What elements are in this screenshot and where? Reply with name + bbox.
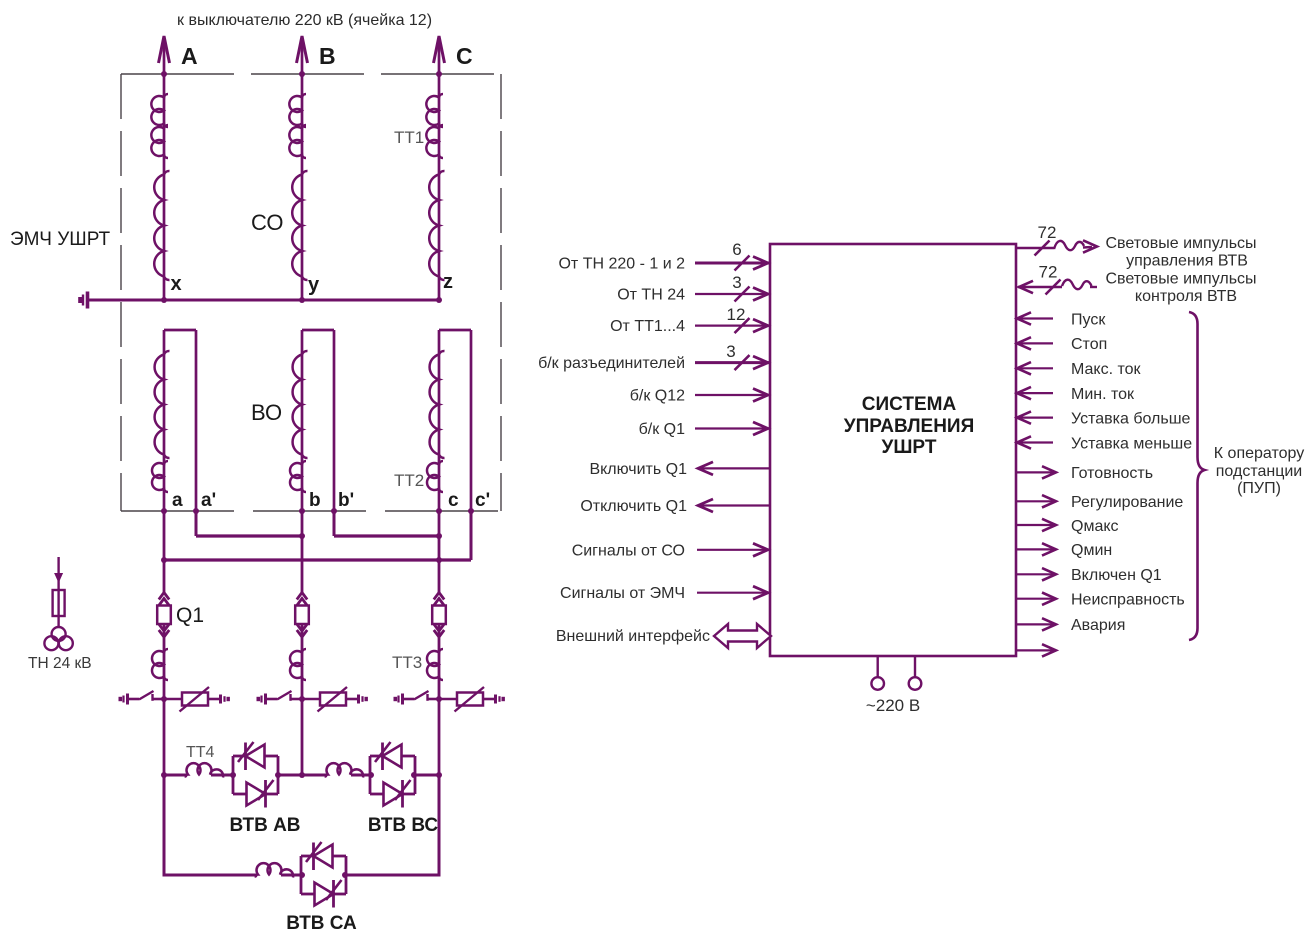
svg-text:УШРТ: УШРТ <box>882 437 937 458</box>
svg-text:72: 72 <box>1039 263 1058 282</box>
svg-text:ТТ2: ТТ2 <box>394 471 424 490</box>
svg-text:УПРАВЛЕНИЯ: УПРАВЛЕНИЯ <box>844 416 975 437</box>
svg-text:z: z <box>443 271 453 293</box>
svg-text:ВТВ АВ: ВТВ АВ <box>229 815 300 836</box>
svg-text:СИСТЕМА: СИСТЕМА <box>862 394 957 415</box>
svg-text:ВТВ СА: ВТВ СА <box>286 913 357 934</box>
svg-text:управления ВТВ: управления ВТВ <box>1126 253 1248 270</box>
svg-text:~220 В: ~220 В <box>866 696 920 715</box>
svg-text:Сигналы от СО: Сигналы от СО <box>572 542 685 559</box>
svg-text:СО: СО <box>251 210 284 235</box>
svg-text:Q1: Q1 <box>176 604 204 627</box>
svg-text:С: С <box>456 43 473 69</box>
svg-text:ТН 24 кВ: ТН 24 кВ <box>28 655 92 672</box>
svg-text:Световые импульсы: Световые импульсы <box>1105 235 1256 252</box>
svg-text:подстанции: подстанции <box>1216 463 1302 480</box>
svg-text:Пуск: Пуск <box>1071 311 1106 328</box>
svg-text:б/к разъединителей: б/к разъединителей <box>538 355 685 372</box>
svg-text:Qмакс: Qмакс <box>1071 518 1119 535</box>
svg-text:Уставка меньше: Уставка меньше <box>1071 435 1192 452</box>
svg-text:А: А <box>181 43 198 69</box>
svg-text:(ПУП): (ПУП) <box>1237 480 1281 497</box>
svg-text:От ТН 24: От ТН 24 <box>617 287 685 304</box>
svg-text:b: b <box>309 490 321 511</box>
svg-text:В: В <box>319 43 336 69</box>
svg-text:Стоп: Стоп <box>1071 336 1107 353</box>
svg-text:к выключателю 220 кВ (ячейка 1: к выключателю 220 кВ (ячейка 12) <box>177 12 432 29</box>
svg-text:Qмин: Qмин <box>1071 542 1112 559</box>
svg-text:Внешний интерфейс: Внешний интерфейс <box>556 628 710 645</box>
svg-text:c': c' <box>475 490 490 511</box>
svg-text:Регулирование: Регулирование <box>1071 494 1183 511</box>
svg-text:б/к Q1: б/к Q1 <box>639 421 686 438</box>
svg-text:ТТ3: ТТ3 <box>392 653 422 672</box>
svg-text:От ТТ1...4: От ТТ1...4 <box>610 318 685 335</box>
svg-text:Авария: Авария <box>1071 617 1125 634</box>
svg-text:ВТВ ВС: ВТВ ВС <box>368 815 439 836</box>
svg-text:Мин. ток: Мин. ток <box>1071 386 1135 403</box>
svg-text:Уставка больше: Уставка больше <box>1071 410 1191 427</box>
svg-text:контроля ВТВ: контроля ВТВ <box>1135 288 1237 305</box>
svg-text:72: 72 <box>1038 223 1057 242</box>
svg-text:a: a <box>172 490 183 511</box>
svg-text:ВО: ВО <box>251 400 282 425</box>
svg-text:Включен Q1: Включен Q1 <box>1071 567 1162 584</box>
svg-text:c: c <box>448 490 459 511</box>
svg-text:12: 12 <box>727 305 746 324</box>
svg-text:б/к Q12: б/к Q12 <box>630 388 685 405</box>
svg-text:a': a' <box>201 490 216 511</box>
svg-text:Готовность: Готовность <box>1071 465 1153 482</box>
svg-text:3: 3 <box>726 342 735 361</box>
svg-text:b': b' <box>338 490 354 511</box>
svg-text:К оператору: К оператору <box>1214 445 1304 462</box>
svg-text:Отключить Q1: Отключить Q1 <box>580 498 687 515</box>
svg-text:ЭМЧ УШРТ: ЭМЧ УШРТ <box>10 229 111 250</box>
svg-text:x: x <box>171 273 182 295</box>
svg-text:Неисправность: Неисправность <box>1071 592 1185 609</box>
svg-text:Сигналы от ЭМЧ: Сигналы от ЭМЧ <box>560 585 685 602</box>
svg-text:Макс. ток: Макс. ток <box>1071 361 1142 378</box>
svg-text:y: y <box>308 274 320 296</box>
svg-text:6: 6 <box>732 240 741 259</box>
svg-text:Включить Q1: Включить Q1 <box>589 461 687 478</box>
svg-text:ТТ4: ТТ4 <box>186 744 215 761</box>
svg-text:3: 3 <box>732 273 741 292</box>
svg-text:ТТ1: ТТ1 <box>394 128 424 147</box>
svg-text:От ТН 220 - 1 и 2: От ТН 220 - 1 и 2 <box>558 256 685 273</box>
svg-text:Световые импульсы: Световые импульсы <box>1105 271 1256 288</box>
